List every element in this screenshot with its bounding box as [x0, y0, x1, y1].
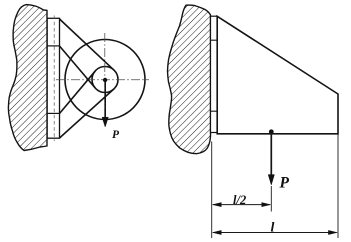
wall (side view, hatched) [168, 5, 211, 154]
svg-text:l/2: l/2 [233, 193, 246, 207]
bracket beam (side view, tapered) [217, 16, 338, 134]
right extension line [337, 134, 339, 238]
svg-text:l: l [271, 220, 275, 235]
horizontal centerline [56, 79, 149, 81]
axle center dot [103, 78, 107, 82]
plate joint upper [47, 45, 59, 47]
mounting plate (side view) [211, 16, 218, 132]
mounting plate (front view) [47, 18, 59, 138]
vertical centerline [104, 33, 106, 121]
load point dot (side view) [269, 129, 274, 134]
upper arm bottom edge [60, 46, 96, 88]
dimension line l [212, 230, 338, 235]
plate tick lower (side view) [211, 110, 218, 112]
load arrow P (side view) [268, 132, 274, 185]
plate bolt centerline (dashed) [53, 16, 55, 142]
load arrow P (front view) [102, 80, 108, 127]
lower arm bottom edge [60, 89, 114, 138]
lower arm top edge [60, 71, 96, 113]
hub (inner circle) [92, 67, 118, 93]
dimension line l/2 [212, 202, 272, 207]
plate tick upper (side view) [211, 39, 218, 41]
load extension line [270, 186, 272, 212]
svg-text:P: P [112, 129, 120, 141]
upper arm top edge [60, 19, 114, 70]
wall (front view, hatched) [8, 5, 47, 151]
pulley (outer circle) [65, 40, 145, 120]
plate joint lower [47, 112, 59, 114]
svg-text:P: P [280, 175, 290, 192]
left extension line [211, 142, 213, 239]
